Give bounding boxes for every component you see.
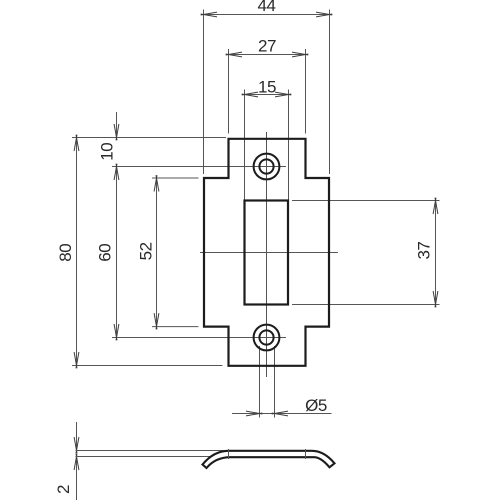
dim 60 dimension line: [116, 167, 118, 338]
arrowhead dim 52 down: [154, 313, 157, 329]
arrowhead dim 10 down: [114, 124, 117, 140]
arrowhead dim 2 up: [76, 454, 79, 470]
svg-text:52: 52: [137, 242, 156, 260]
dim diameter-5 dimension/leader line: [232, 413, 332, 415]
dim 15 dimension line: [245, 94, 289, 96]
arrowhead dim 37 up: [435, 198, 438, 214]
dim 27 dimension line: [229, 54, 306, 56]
side view curved lip band: [203, 451, 335, 468]
arrowhead dim diameter-5 pointing left: [272, 411, 288, 414]
svg-text:10: 10: [98, 143, 117, 161]
dim diameter-5 right extension line: [274, 346, 276, 418]
label 52: [137, 242, 156, 260]
dim 52 dimension line: [156, 178, 158, 327]
vertical centerline of plate: [266, 132, 268, 377]
bottom screw hole inner circle: [259, 330, 273, 344]
arrowhead dim 80 down: [74, 352, 77, 368]
dim 80 bottom extension line: [72, 365, 223, 367]
dim 80 dimension line: [76, 138, 78, 366]
arrowhead dim 15 right: [275, 94, 291, 97]
dim 80 top extension line: [72, 137, 226, 139]
dim 2 dimension line upper tail: [76, 422, 78, 451]
arrowhead dim 27 right: [292, 54, 308, 57]
side view right bend tick: [305, 449, 307, 459]
dim 15 right extension line: [288, 90, 290, 201]
side view sheet top line: [76, 450, 229, 452]
dim 27 right extension line: [305, 49, 307, 134]
label 10: [98, 143, 117, 161]
svg-text:15: 15: [258, 78, 276, 97]
svg-text:Ø5: Ø5: [305, 396, 327, 415]
arrowhead dim 2 down: [74, 437, 77, 453]
arrowhead dim diameter-5 pointing right: [246, 413, 262, 416]
dim 52 bottom extension line: [152, 326, 199, 328]
top hole horizontal centerline: [112, 166, 286, 168]
arrowhead dim 60 down: [114, 324, 117, 340]
bottom screw hole outer circle: [254, 325, 280, 351]
strike plate outline (front view): [204, 139, 329, 366]
arrowhead dim 80 up: [76, 135, 79, 151]
dim 27 left extension line: [228, 49, 230, 134]
arrowhead dim 27 left: [226, 52, 242, 55]
dim diameter-5 left extension line: [259, 346, 261, 418]
label 2: [54, 485, 73, 494]
label 37: [415, 242, 434, 260]
side view left bend tick: [228, 449, 230, 459]
arrowhead dim 60 up: [116, 164, 119, 180]
arrowhead dim 44 left: [201, 12, 217, 15]
latch slot opening: [245, 201, 289, 305]
dim 44 right extension line: [329, 10, 331, 175]
svg-text:27: 27: [258, 37, 276, 56]
svg-text:60: 60: [95, 244, 114, 262]
dim 44 dimension line: [204, 14, 330, 16]
dim 10 dimension line upper tail: [116, 112, 118, 138]
middle horizontal centerline: [200, 252, 338, 254]
dim 37 top extension line: [292, 200, 440, 202]
label 80: [56, 244, 75, 262]
arrowhead dim 44 right: [316, 14, 332, 17]
top screw hole outer circle: [254, 154, 280, 180]
side view sheet bottom line: [76, 456, 212, 458]
label 60: [95, 244, 114, 262]
dim 44 left extension line: [203, 10, 205, 175]
dim 37 dimension line: [435, 201, 437, 305]
arrowhead dim 15 left: [242, 92, 258, 95]
arrowhead dim 37 down: [433, 291, 436, 307]
arrowhead dim 52 up: [156, 175, 159, 191]
dim 37 bottom extension line: [292, 304, 440, 306]
svg-text:2: 2: [54, 485, 73, 494]
svg-text:37: 37: [415, 242, 434, 260]
dim 52 top extension line: [152, 177, 199, 179]
svg-text:80: 80: [56, 244, 75, 262]
top screw hole inner circle: [259, 159, 273, 173]
bottom hole horizontal centerline: [112, 337, 286, 339]
dim 2 dimension line lower tail: [76, 457, 78, 500]
svg-text:44: 44: [258, 0, 276, 15]
dim 15 left extension line: [244, 90, 246, 201]
